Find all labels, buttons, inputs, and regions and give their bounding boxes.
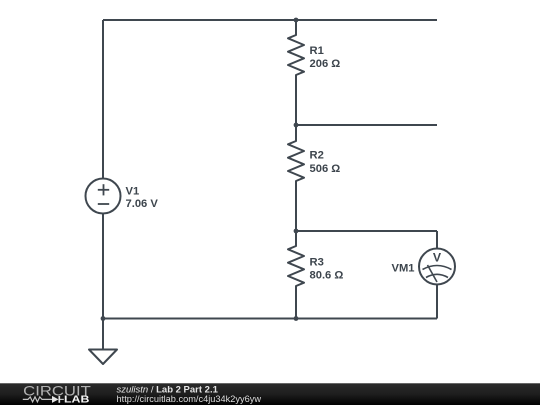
svg-text:R2: R2 — [310, 150, 324, 162]
svg-text:V: V — [433, 251, 442, 265]
svg-text:206 Ω: 206 Ω — [310, 58, 341, 70]
svg-text:LAB: LAB — [64, 394, 89, 405]
svg-text:R1: R1 — [310, 45, 324, 57]
svg-text:VM1: VM1 — [391, 263, 414, 275]
svg-text:506 Ω: 506 Ω — [310, 163, 341, 175]
svg-text:V1: V1 — [126, 186, 140, 198]
svg-text:http://circuitlab.com/c4ju34k2: http://circuitlab.com/c4ju34k2yy6yw — [117, 394, 262, 405]
svg-text:7.06 V: 7.06 V — [126, 198, 159, 210]
svg-text:R3: R3 — [310, 257, 324, 269]
svg-text:80.6 Ω: 80.6 Ω — [310, 270, 344, 282]
